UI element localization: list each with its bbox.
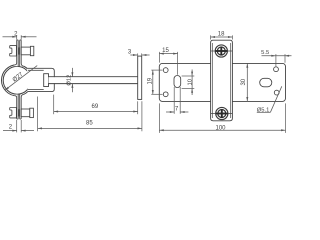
socket inner wall lines [28,69,44,71]
svg-text:5.5: 5.5 [261,50,269,56]
bottom bolt shaft [21,109,30,117]
screw axis side lines bottom [211,113,216,115]
label Ø27 with leader [5,66,37,91]
top neck strap plates [15,40,19,67]
clamp bar inner edge lines [211,43,213,118]
bottom bolt head [10,108,17,118]
top bolt shaft [21,47,30,55]
left hole top [163,68,168,73]
svg-text:19: 19 [147,77,153,84]
neck cutouts [14,64,23,67]
rod socket body [27,68,54,91]
bottom neck strap plates [15,94,19,119]
mounting plate [159,63,285,101]
horizontal slot [260,78,272,87]
flange (side view) [138,56,142,99]
right hole top [274,67,279,72]
bottom bolt end nut [30,108,34,117]
socket mouth rectangle [44,74,49,87]
rod Ø12 [49,77,138,83]
dimension Ø12 [71,68,73,77]
top bolt end nut [30,46,33,55]
screw head bottom [216,107,228,119]
top bolt head [10,46,17,56]
clamp ring outer [2,65,33,96]
svg-text:85: 85 [86,121,93,127]
svg-text:30: 30 [241,78,247,85]
screw head top [215,45,227,57]
svg-text:Ø12: Ø12 [66,75,72,86]
svg-text:69: 69 [92,104,99,110]
bottom bolt visible through slot [18,109,20,116]
top bolt visible through slot [18,47,20,54]
clamp bar front view [211,40,233,121]
right hole bottom Ø5.1 [274,90,279,95]
vertical slot [174,76,181,88]
left hole bottom [163,92,168,97]
clamp ring inner (pipe hole Ø27) [3,66,31,94]
screw axis side lines top [211,50,216,52]
